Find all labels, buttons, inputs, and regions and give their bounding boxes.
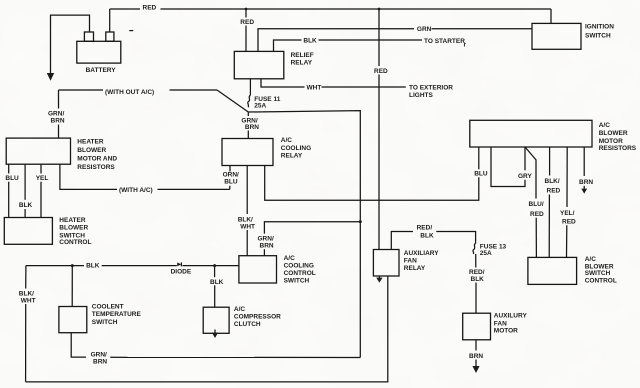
wire GRN/BRN to heater blower (58, 90, 60, 109)
ground (compressor clutch) (214, 330, 216, 334)
node (compressor clutch tap) (213, 264, 216, 267)
A/C blower switch control (528, 257, 577, 284)
svg-text:CONTROL: CONTROL (284, 270, 316, 277)
svg-text:(WITH A/C): (WITH A/C) (119, 187, 153, 194)
svg-text:SWITCH: SWITCH (585, 33, 611, 40)
svg-text:SWITCH: SWITCH (585, 270, 611, 277)
svg-text:A/C: A/C (281, 137, 293, 144)
wire BLU heater pin (8, 164, 10, 173)
wire top RED rail (110, 8, 140, 10)
relief relay U1 (234, 51, 283, 78)
svg-text:BLK: BLK (471, 276, 485, 283)
svg-text:WHT: WHT (21, 297, 36, 304)
fuse F13 (473, 244, 476, 255)
svg-text:A/C: A/C (234, 306, 246, 313)
svg-text:COMPRESSOR: COMPRESSOR (234, 314, 281, 321)
wire BLK/WHT relay to control switch (246, 166, 248, 215)
svg-text:TO STARTER: TO STARTER (424, 38, 465, 45)
wire BRN resistors ground (583, 147, 585, 176)
wire fuse node to vertical bus (248, 111, 360, 221)
wire bottom rail to aux fan relay (26, 276, 388, 382)
diode D1 (177, 262, 181, 266)
svg-text:BRN: BRN (245, 124, 259, 131)
svg-text:RED: RED (240, 19, 254, 26)
svg-text:BRN: BRN (469, 353, 483, 360)
wire GRN/BRN fuse node to A/C cooling relay (247, 112, 249, 116)
svg-text:BRN: BRN (579, 179, 593, 186)
wire BLU relay to blower resistors (265, 166, 479, 201)
svg-text:RELAY: RELAY (281, 153, 303, 160)
svg-text:CLUTCH: CLUTCH (234, 321, 261, 328)
svg-text:COOLING: COOLING (281, 145, 311, 152)
heater blower switch control (4, 218, 52, 245)
svg-text:LIGHTS: LIGHTS (409, 92, 433, 99)
node (RED to aux fan relay) (378, 8, 381, 11)
A/C blower motor resistors (470, 120, 592, 147)
svg-text:SWITCH: SWITCH (92, 319, 118, 326)
fuse F11 (249, 79, 251, 96)
svg-text:RESISTORS: RESISTORS (77, 164, 115, 171)
svg-text:BATTERY: BATTERY (86, 67, 117, 74)
svg-text:GRN/: GRN/ (48, 111, 64, 118)
svg-text:TO EXTERIOR: TO EXTERIOR (409, 85, 453, 92)
svg-text:BLK/: BLK/ (545, 178, 560, 185)
battery (77, 41, 121, 63)
svg-text:RED: RED (143, 5, 157, 12)
svg-text:FAN: FAN (494, 320, 507, 327)
wire BLK to starter (274, 40, 302, 51)
svg-text:RELAY: RELAY (291, 60, 313, 67)
A/C cooling control switch (239, 256, 277, 283)
wire YEL heater pin (40, 164, 42, 173)
wire BRN aux fan motor ground (475, 340, 477, 351)
svg-text:BLOWER: BLOWER (59, 225, 88, 232)
svg-text:BRN: BRN (93, 358, 107, 365)
wire RED battery to top rail (109, 9, 111, 32)
svg-text:BLK: BLK (19, 202, 33, 209)
svg-text:HEATER: HEATER (77, 138, 104, 145)
svg-text:BLU: BLU (224, 179, 238, 186)
wire RED/BLK relay to fuse 13 (391, 232, 413, 250)
svg-text:BLU: BLU (5, 175, 19, 182)
wire BLK/WHT left vertical (25, 266, 27, 289)
svg-text:WHT: WHT (240, 223, 255, 230)
svg-text:BRN: BRN (51, 118, 65, 125)
ground (aux fan relay) (378, 276, 380, 278)
svg-text:GRN/: GRN/ (258, 236, 274, 243)
ignition switch (532, 23, 581, 49)
node (RED to relief relay) (245, 8, 248, 11)
svg-text:A/C: A/C (284, 255, 296, 262)
wire YEL/RED resistors to blower switch (566, 147, 568, 207)
svg-text:COOLING: COOLING (284, 262, 314, 269)
svg-text:RED: RED (547, 188, 561, 195)
svg-text:RELIEF: RELIEF (291, 52, 314, 59)
ground (battery) (51, 15, 90, 74)
svg-text:FAN: FAN (404, 257, 417, 264)
wire BLK main line (26, 265, 84, 267)
svg-text:BLK: BLK (210, 279, 224, 286)
svg-text:GRN: GRN (417, 26, 432, 33)
svg-text:BLOWER: BLOWER (77, 147, 106, 154)
coolant temperature switch (59, 307, 87, 333)
svg-text:RED: RED (374, 68, 388, 75)
wire WHT to exterior lights (261, 79, 305, 87)
svg-text:GRY: GRY (518, 173, 533, 180)
wire coolant temp switch top (71, 266, 73, 307)
svg-text:RED: RED (562, 218, 576, 225)
heater blower motor and resistors (6, 138, 70, 164)
svg-text:CONTROL: CONTROL (585, 278, 617, 285)
svg-text:25A: 25A (254, 103, 266, 110)
wire GRN relay to ignition switch (258, 29, 414, 52)
svg-text:BLU/: BLU/ (529, 201, 544, 208)
svg-text:A/C: A/C (599, 122, 611, 129)
wire RED drop to ignition switch (550, 9, 552, 23)
svg-text:BLU: BLU (474, 171, 488, 178)
svg-text:IGNITION: IGNITION (585, 24, 614, 31)
svg-text:RESISTORS: RESISTORS (599, 145, 637, 152)
aux fan relay (373, 250, 399, 277)
svg-text:25A: 25A (480, 250, 492, 257)
wire GRN/BRN bus to control switch (264, 222, 360, 234)
svg-text:BLK: BLK (86, 263, 100, 270)
svg-text:SWITCH: SWITCH (284, 277, 310, 284)
svg-text:BRN: BRN (260, 243, 274, 250)
wire RED long vertical to aux fan relay (378, 9, 380, 66)
svg-text:TEMPERATURE: TEMPERATURE (92, 311, 142, 318)
wire RED/BLK fuse to aux fan motor (475, 254, 477, 268)
svg-text:MOTOR: MOTOR (494, 328, 518, 335)
wire RED drop to relief relay (245, 9, 247, 18)
svg-text:AUXILIARY: AUXILIARY (404, 250, 439, 257)
wire BLK heater pin (24, 164, 26, 200)
svg-text:RED/: RED/ (417, 225, 433, 232)
wire GRY loop (491, 147, 525, 187)
wire BLK/RED resistors to blower switch (549, 147, 551, 176)
svg-text:A/C: A/C (585, 256, 597, 263)
svg-text:YEL: YEL (36, 175, 49, 182)
aux fan motor (463, 313, 491, 340)
svg-text:MOTOR: MOTOR (599, 138, 623, 145)
A/C cooling relay (222, 139, 273, 166)
svg-text:(WITH OUT A/C): (WITH OUT A/C) (105, 89, 154, 96)
svg-text:WHT: WHT (307, 85, 322, 92)
wire (WITH OUT A/C) branch (59, 89, 104, 91)
svg-text:BLK: BLK (420, 233, 434, 240)
wire BLK to compressor clutch (214, 266, 216, 278)
svg-text:CONTROL: CONTROL (59, 239, 91, 246)
svg-text:ORN/: ORN/ (223, 172, 239, 179)
wire BLU/RED resistors to blower switch (525, 147, 536, 199)
svg-text:RED: RED (530, 211, 544, 218)
svg-text:HEATER: HEATER (59, 217, 86, 224)
svg-text:RED/: RED/ (469, 269, 485, 276)
svg-text:BLK: BLK (303, 38, 317, 45)
svg-text:AUXILURY: AUXILURY (494, 313, 528, 320)
wire GRN/BRN coolant switch to bus (71, 333, 86, 357)
svg-text:GRN/: GRN/ (91, 351, 107, 358)
svg-text:BLK/: BLK/ (238, 216, 253, 223)
node (coolant temp switch tap) (71, 264, 74, 267)
svg-text:RELAY: RELAY (404, 265, 426, 272)
svg-text:MOTOR AND: MOTOR AND (77, 156, 117, 163)
A/C compressor clutch (203, 307, 229, 333)
svg-text:COOLENT: COOLENT (92, 304, 124, 311)
wire (WITH A/C) heater to A/C cooling relay (60, 164, 117, 189)
svg-text:DIODE: DIODE (171, 268, 192, 275)
node (bus to control switch wire) (359, 220, 362, 223)
svg-text:YEL/: YEL/ (560, 210, 575, 217)
svg-text:BLOWER: BLOWER (599, 130, 628, 137)
